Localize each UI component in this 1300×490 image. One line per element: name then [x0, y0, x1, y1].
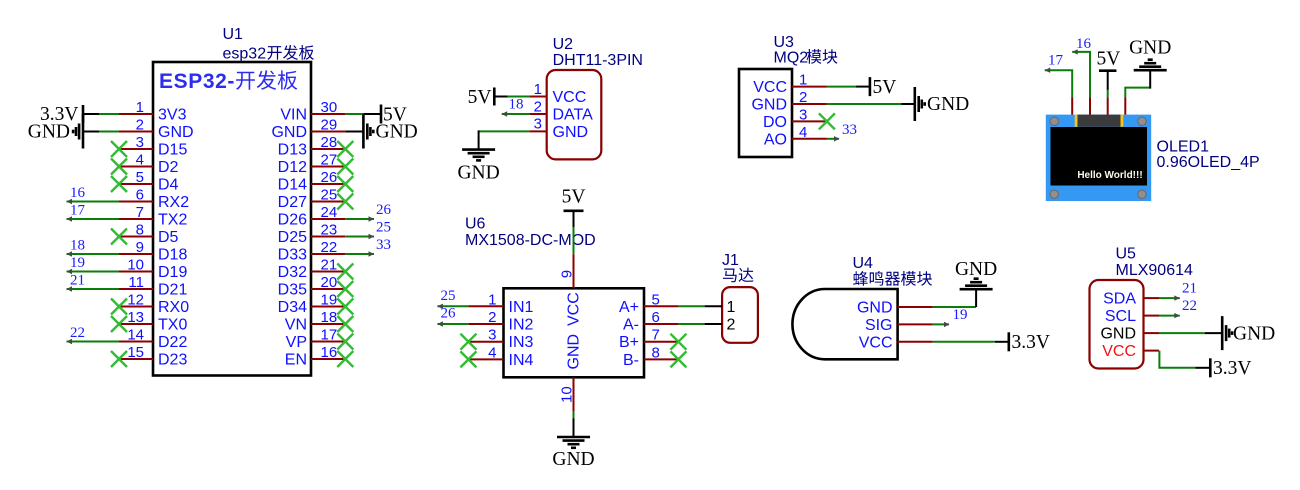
svg-text:19: 19	[953, 307, 968, 323]
svg-text:3: 3	[488, 327, 496, 344]
svg-text:2: 2	[136, 117, 144, 134]
svg-text:5: 5	[136, 169, 144, 186]
net label 25	[376, 220, 391, 236]
svg-text:2: 2	[799, 89, 807, 106]
no-connect flag U1 pin 3	[111, 141, 127, 157]
net label 19	[70, 255, 85, 271]
ground symbol GND (above OLED1)	[1129, 38, 1171, 89]
wire net 21 from U1 pin 11	[67, 286, 120, 291]
wire net 21 from U5 SDA	[1159, 295, 1180, 300]
U3 pin 2 (GND)	[751, 89, 826, 114]
no-connect flag U1 pin 13	[111, 316, 127, 332]
svg-text:IN2: IN2	[509, 317, 534, 334]
wire U6 pin10 to GND	[573, 412, 575, 420]
U1 part name label esp32开发板	[223, 45, 314, 63]
U1 pin 12 (RX0)	[119, 292, 189, 317]
svg-text:GND: GND	[857, 300, 893, 317]
net label 17	[70, 203, 86, 219]
svg-text:GND: GND	[552, 449, 594, 470]
svg-text:22: 22	[321, 239, 338, 256]
svg-text:9: 9	[559, 270, 576, 278]
U5 pin (GND)	[1100, 326, 1159, 343]
svg-text:D21: D21	[158, 282, 187, 299]
svg-text:3.3V: 3.3V	[1213, 358, 1251, 379]
J1 part name 马达	[723, 268, 754, 283]
svg-text:D15: D15	[158, 142, 187, 159]
wire net 25 from U6 pin1	[437, 304, 468, 309]
svg-text:DATA: DATA	[553, 107, 594, 124]
net label 33	[376, 237, 391, 253]
U5 pin (VCC)	[1102, 343, 1159, 360]
U4 pin (VCC)	[859, 334, 933, 351]
U6 pin 1 (IN1)	[468, 291, 533, 316]
module U4 buzzer body (D-shape)	[792, 289, 897, 359]
U1 pin 27 (D12)	[278, 152, 346, 177]
wire net 17 from U1 pin 7	[67, 216, 120, 221]
no-connect flag U6 pin8	[670, 351, 686, 367]
power flag 5V (above U6)	[562, 187, 586, 228]
svg-text:D18: D18	[158, 247, 187, 264]
U1 reference designator label	[223, 26, 244, 43]
svg-text:10: 10	[127, 257, 144, 274]
no-connect flag U1 pin 27	[337, 159, 353, 175]
ground symbol GND (above U4)	[955, 259, 997, 307]
wire net 17 from OLED1 pin 1	[1045, 68, 1073, 98]
svg-text:17: 17	[1048, 53, 1064, 69]
no-connect flag U1 pin 4	[111, 159, 127, 175]
svg-text:GND: GND	[553, 124, 589, 141]
wire U1 pin30 to 5V flag	[345, 113, 363, 115]
svg-text:IN4: IN4	[509, 352, 534, 369]
svg-text:15: 15	[127, 344, 144, 361]
svg-text:VN: VN	[285, 317, 307, 334]
svg-text:GND: GND	[566, 334, 583, 370]
J1 reference designator label	[722, 252, 739, 269]
svg-text:4: 4	[488, 344, 496, 361]
U1 pin 26 (D14)	[278, 169, 346, 194]
wire U3 pin1 to 5V flag	[827, 86, 856, 88]
U1 pin 23 (D25)	[278, 222, 346, 247]
svg-text:RX2: RX2	[158, 194, 189, 211]
svg-text:GND: GND	[955, 259, 997, 280]
net label 16	[1076, 36, 1092, 52]
net label 22	[70, 325, 85, 341]
U1 pin 16 (EN)	[285, 344, 346, 369]
svg-text:3V3: 3V3	[158, 107, 187, 124]
U1 pin 30 (VIN)	[280, 99, 345, 124]
no-connect flag U1 pin 26	[337, 176, 353, 192]
svg-text:9: 9	[136, 239, 144, 256]
svg-text:22: 22	[1182, 298, 1197, 314]
no-connect flag U1 pin 18	[337, 316, 353, 332]
svg-text:GND: GND	[927, 94, 969, 115]
IC U2 DHT11-3PIN body	[547, 70, 602, 159]
net label 18	[70, 238, 85, 254]
U1 pin 1 (3V3)	[119, 99, 187, 124]
svg-text:MQ2: MQ2	[774, 50, 809, 67]
svg-text:2: 2	[488, 309, 496, 326]
U6 pin 9 (VCC top)	[559, 254, 576, 288]
wire U2 pin1 to 5V flag	[508, 96, 530, 98]
wire net 18 from U1 pin 9	[67, 251, 120, 256]
svg-text:33: 33	[376, 237, 391, 253]
svg-text:VCC: VCC	[859, 334, 893, 351]
U1 pin 18 (VN)	[285, 309, 346, 334]
svg-text:D33: D33	[278, 247, 307, 264]
U6 pin 4 (IN4)	[468, 344, 533, 369]
svg-text:VCC: VCC	[1102, 343, 1136, 360]
svg-text:26: 26	[441, 306, 457, 322]
U1 pin 22 (D33)	[278, 239, 346, 264]
wire U5 VCC to 3.3V flag	[1159, 351, 1195, 368]
U1 pin 9 (D18)	[119, 239, 187, 264]
svg-text:GND: GND	[457, 163, 499, 184]
svg-text:D19: D19	[158, 264, 187, 281]
no-connect flag U1 pin 16	[337, 351, 353, 367]
svg-text:esp32: esp32	[223, 46, 267, 63]
U6 pin 6 (A-)	[623, 309, 678, 334]
wire net 33 from U1 pin 22	[345, 251, 374, 256]
wire net 25 from U1 pin 23	[345, 234, 374, 239]
U1 pin 17 (VP)	[286, 327, 346, 352]
U1 pin 21 (D32)	[278, 257, 346, 282]
wire net 26 from U6 pin2	[437, 321, 468, 326]
U5 reference designator label	[1116, 246, 1137, 263]
U5 pin (SCL)	[1105, 308, 1159, 325]
svg-text:25: 25	[321, 187, 338, 204]
svg-text:DO: DO	[763, 114, 787, 131]
svg-text:4: 4	[136, 152, 144, 169]
svg-text:1: 1	[534, 81, 542, 98]
svg-text:27: 27	[321, 152, 338, 169]
wire net 22 from U1 pin 14	[67, 339, 120, 344]
svg-text:GND: GND	[751, 97, 787, 114]
U1 pin 25 (D27)	[278, 187, 346, 212]
net label 19	[953, 307, 968, 323]
U1 pin 19 (D34)	[278, 292, 346, 317]
svg-text:D34: D34	[278, 299, 307, 316]
svg-text:D22: D22	[158, 334, 187, 351]
svg-text:DHT11-3PIN: DHT11-3PIN	[553, 52, 643, 69]
U5 pin (SDA)	[1103, 291, 1159, 308]
U4 pin (SIG)	[865, 317, 933, 334]
U6 pin name GND (vertical)	[566, 334, 583, 370]
svg-text:GND: GND	[28, 122, 70, 143]
U1 pin 5 (D4)	[119, 169, 179, 194]
wire U6 A- to J1 pin2	[678, 323, 704, 325]
svg-text:2: 2	[534, 98, 542, 115]
svg-text:13: 13	[127, 309, 144, 326]
svg-text:U2: U2	[553, 36, 574, 53]
no-connect flag U6 pin3	[460, 334, 476, 350]
svg-text:GND: GND	[1233, 323, 1275, 344]
U6 reference designator label	[465, 216, 486, 233]
OLED1 reference designator label	[1157, 139, 1210, 156]
svg-text:GND: GND	[271, 124, 307, 141]
U3 part name MQ2模块	[774, 49, 838, 66]
svg-text:D13: D13	[278, 142, 307, 159]
svg-text:18: 18	[321, 309, 338, 326]
power flag 5V (right of U3)	[856, 77, 896, 98]
U1 pin 2 (GND)	[119, 117, 194, 142]
connector J1 motor body	[722, 287, 758, 343]
svg-text:8: 8	[136, 222, 144, 239]
svg-text:Hello World!!!: Hello World!!!	[1077, 170, 1142, 181]
U1 title ESP32-开发板	[159, 70, 297, 93]
svg-text:AO: AO	[764, 131, 787, 148]
svg-text:8: 8	[652, 344, 660, 361]
U3 reference designator label	[774, 34, 795, 51]
no-connect flag U1 pin 20	[337, 281, 353, 297]
net label 21	[70, 273, 85, 289]
wire U4 GND pin to GND symbol	[933, 306, 977, 308]
IC U3 MQ2 module body	[739, 69, 792, 157]
svg-text:SDA: SDA	[1103, 291, 1136, 308]
svg-text:D14: D14	[278, 177, 307, 194]
ground symbol GND (right of U5)	[1205, 316, 1275, 350]
net label 22	[1182, 298, 1197, 314]
U6 pin 7 (B+)	[619, 327, 678, 352]
svg-text:J1: J1	[722, 252, 739, 269]
U6 pin name VCC (vertical)	[566, 292, 583, 326]
OLED screen text Hello World!!!	[1077, 170, 1142, 181]
wire OLED1 pin 3 to 5V flag	[1107, 90, 1109, 97]
svg-text:3.3V: 3.3V	[1012, 332, 1050, 353]
OLED1 part name 0.96OLED_4P	[1157, 154, 1260, 171]
wire net 16 from OLED1 pin 2	[1072, 49, 1090, 97]
U6 pin 10 (GND bottom)	[559, 377, 576, 411]
no-connect flag U1 pin 17	[337, 334, 353, 350]
svg-text:U1: U1	[223, 26, 244, 43]
svg-text:24: 24	[321, 204, 338, 221]
svg-text:21: 21	[1182, 281, 1197, 297]
U6 pin 2 (IN2)	[468, 309, 533, 334]
svg-text:VCC: VCC	[553, 89, 587, 106]
svg-text:GND: GND	[158, 124, 194, 141]
svg-text:20: 20	[321, 274, 338, 291]
U1 pin 20 (D35)	[278, 274, 346, 299]
no-connect flag U3 pin 3 (DO)	[819, 113, 835, 129]
svg-text:RX0: RX0	[158, 299, 189, 316]
svg-text:U4: U4	[853, 255, 874, 272]
svg-text:5: 5	[652, 291, 660, 308]
wire U3 pin2 to GND	[827, 103, 902, 105]
wire net 33 from U3 pin 4 (AO)	[827, 136, 840, 141]
svg-text:ESP32-: ESP32-	[159, 70, 235, 93]
svg-text:EN: EN	[285, 352, 307, 369]
svg-text:23: 23	[321, 222, 338, 239]
U2 pin 1 (VCC)	[530, 81, 587, 106]
svg-text:D27: D27	[278, 194, 307, 211]
U2 reference designator label	[553, 36, 574, 53]
U4 pin (GND)	[857, 300, 933, 317]
U3 pin 1 (VCC)	[753, 72, 827, 97]
no-connect flag U1 pin 5	[111, 176, 127, 192]
svg-text:4: 4	[799, 124, 807, 141]
svg-text:3: 3	[136, 134, 144, 151]
svg-text:3: 3	[799, 106, 807, 123]
wire U5 GND to GND symbol	[1159, 332, 1205, 334]
IC U5 MLX90614 body	[1090, 280, 1144, 369]
U3 pin 4 (AO)	[764, 124, 827, 149]
net label 17	[1048, 53, 1064, 69]
U6 pin 5 (A+)	[619, 291, 678, 316]
svg-text:11: 11	[128, 274, 144, 291]
OLED1 pin 2 stub	[1089, 97, 1091, 114]
wire U6 pin9 to 5V flag	[573, 227, 575, 254]
svg-text:0.96OLED_4P: 0.96OLED_4P	[1157, 154, 1260, 171]
svg-text:D4: D4	[158, 177, 179, 194]
svg-text:D2: D2	[158, 159, 179, 176]
no-connect flag U1 pin 25	[337, 194, 353, 210]
OLED1 pin 3 stub	[1107, 97, 1109, 114]
U1 pin 13 (TX0)	[119, 309, 187, 334]
U1 pin 24 (D26)	[278, 204, 346, 229]
svg-text:MX1508-DC-MOD: MX1508-DC-MOD	[465, 232, 596, 249]
svg-text:D12: D12	[278, 159, 307, 176]
no-connect flag U1 pin 15	[111, 351, 127, 367]
svg-text:SIG: SIG	[865, 317, 893, 334]
svg-text:19: 19	[70, 255, 85, 271]
svg-text:21: 21	[321, 257, 338, 274]
U5 part name MLX90614	[1116, 262, 1193, 279]
U4 reference designator label	[853, 255, 874, 272]
wire U1 pin2 to GND flag	[99, 131, 119, 133]
U1 pin 28 (D13)	[278, 134, 346, 159]
svg-text:6: 6	[652, 309, 660, 326]
power flag 5V (left of U2)	[468, 87, 508, 108]
net label 26	[376, 202, 392, 218]
svg-text:VIN: VIN	[280, 107, 307, 124]
wire net 22 from U5 SCL	[1159, 313, 1180, 318]
power flag 5V (above OLED1)	[1097, 48, 1121, 90]
svg-text:17: 17	[321, 327, 338, 344]
U1 pin 14 (D22)	[119, 327, 187, 352]
svg-text:1: 1	[488, 291, 496, 308]
svg-text:25: 25	[376, 220, 391, 236]
svg-text:OLED1: OLED1	[1157, 139, 1210, 156]
svg-text:22: 22	[70, 325, 85, 341]
svg-text:33: 33	[842, 122, 857, 138]
power flag 3.3V (below right of U5)	[1195, 358, 1251, 379]
svg-text:VP: VP	[286, 334, 307, 351]
net label 25	[441, 288, 456, 304]
ground symbol GND (below U6)	[552, 418, 594, 470]
power flag 5V (right of U1)	[363, 104, 406, 125]
svg-text:5V: 5V	[562, 187, 586, 208]
svg-text:1: 1	[799, 72, 807, 89]
net label 21	[1182, 281, 1197, 297]
wire net 16 from U1 pin 6	[67, 199, 120, 204]
svg-text:1: 1	[136, 99, 144, 116]
svg-text:12: 12	[127, 292, 144, 309]
svg-text:A+: A+	[619, 299, 639, 316]
no-connect flag U1 pin 12	[111, 299, 127, 315]
svg-text:16: 16	[1076, 36, 1092, 52]
svg-text:IN1: IN1	[509, 299, 534, 316]
wire net 19 from U4 SIG pin	[933, 322, 950, 327]
svg-text:7: 7	[652, 327, 660, 344]
ground symbol GND (right of U3)	[902, 87, 970, 121]
svg-text:A-: A-	[623, 317, 639, 334]
svg-text:VCC: VCC	[566, 292, 583, 326]
svg-text:19: 19	[321, 292, 338, 309]
svg-text:18: 18	[70, 238, 85, 254]
svg-text:16: 16	[70, 185, 86, 201]
svg-text:SCL: SCL	[1105, 308, 1136, 325]
svg-text:D25: D25	[278, 229, 307, 246]
OLED1 pin 4 stub	[1124, 97, 1126, 114]
U6 part name MX1508-DC-MOD	[465, 232, 596, 249]
svg-text:3: 3	[534, 116, 542, 133]
U3 pin 3 (DO)	[763, 106, 827, 130]
U4 part name 蜂鸣器模块	[853, 271, 932, 286]
net label 33	[842, 122, 857, 138]
svg-text:IN3: IN3	[509, 334, 534, 351]
wire net 26 from U1 pin 24	[345, 216, 374, 221]
svg-text:16: 16	[321, 344, 338, 361]
ground symbol GND (left of U1)	[28, 115, 99, 149]
U2 pin 3 (GND)	[530, 116, 588, 141]
U1 pin 11 (D21)	[119, 274, 187, 299]
U1 pin 15 (D23)	[119, 344, 187, 369]
no-connect flag U1 pin 19	[337, 299, 353, 315]
wire net 18 from U2 pin2 (DATA)	[502, 111, 530, 116]
U1 pin 3 (D15)	[119, 134, 187, 159]
svg-text:26: 26	[321, 169, 338, 186]
power flag 3.3V (right of U4)	[995, 332, 1050, 353]
svg-text:5V: 5V	[1097, 48, 1121, 69]
no-connect flag U6 pin7	[670, 334, 686, 350]
IC U1 esp32 dev board body	[153, 62, 311, 376]
svg-text:MLX90614: MLX90614	[1116, 262, 1193, 279]
wire net 19 from U1 pin 10	[67, 269, 120, 274]
net label 18	[509, 97, 524, 113]
wire U6 A+ to J1 pin1	[678, 305, 704, 307]
svg-text:B-: B-	[623, 352, 639, 369]
svg-text:VCC: VCC	[753, 79, 787, 96]
IC U6 MX1508-DC-MOD body	[504, 288, 645, 377]
svg-text:7: 7	[136, 204, 144, 221]
module OLED1 0.96 OLED display body	[1046, 115, 1151, 201]
U2 part name DHT11-3PIN	[553, 52, 643, 69]
no-connect flag U6 pin4	[460, 351, 476, 367]
svg-text:10: 10	[559, 386, 576, 403]
svg-text:5V: 5V	[873, 77, 897, 98]
ground symbol GND (below U2)	[457, 130, 499, 183]
J1 pin 2	[705, 317, 736, 334]
svg-text:D32: D32	[278, 264, 307, 281]
svg-text:D35: D35	[278, 282, 307, 299]
svg-text:5V: 5V	[468, 87, 492, 108]
svg-text:25: 25	[441, 288, 456, 304]
power flag 3.3V (left of U1)	[40, 104, 99, 125]
svg-text:GND: GND	[1100, 326, 1136, 343]
svg-text:17: 17	[70, 203, 86, 219]
U1 pin 7 (TX2)	[119, 204, 187, 229]
svg-text:B+: B+	[619, 334, 639, 351]
U1 pin 6 (RX2)	[119, 187, 189, 212]
svg-text:TX2: TX2	[158, 212, 187, 229]
svg-text:GND: GND	[376, 122, 418, 143]
wire U1 pin1 to 3.3V flag	[99, 113, 119, 115]
svg-text:TX0: TX0	[158, 317, 187, 334]
ground symbol GND (right of U1)	[345, 115, 417, 149]
wire OLED1 pin 4 to GND	[1125, 88, 1150, 98]
svg-text:D5: D5	[158, 229, 179, 246]
svg-text:30: 30	[321, 99, 338, 116]
wire U4 VCC pin to 3.3V flag	[933, 341, 995, 343]
